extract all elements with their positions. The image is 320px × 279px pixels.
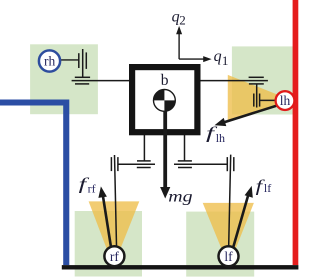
rh leg: vertical slider rod <box>82 49 84 77</box>
blue wall (left, L-shaped) <box>0 100 69 266</box>
axis q2 (vertical arrow) <box>176 26 182 59</box>
svg-text:1: 1 <box>222 53 229 68</box>
lh leg: piston plate right <box>259 94 261 107</box>
lh leg: sleeve top bar <box>249 76 264 78</box>
gravity arrow mg <box>160 100 170 199</box>
lh leg: stem to hip circle <box>260 99 276 101</box>
lf leg: vertical rod to foot <box>229 155 231 250</box>
lh leg: piston plate left <box>253 94 255 107</box>
lf leg: piston plate left <box>226 157 228 171</box>
rh leg: piston plate left <box>78 53 80 68</box>
body square b <box>132 67 197 132</box>
svg-text:q: q <box>214 48 222 65</box>
center of mass symbol <box>154 90 176 112</box>
hip circle rh <box>39 50 60 71</box>
force arrow f_lh <box>215 101 293 127</box>
region lf (green square) <box>186 212 254 277</box>
rf leg: vertical rod to foot <box>115 155 117 250</box>
friction cone rf <box>89 201 140 266</box>
svg-text:lh: lh <box>280 93 291 108</box>
region lh (green square) <box>232 46 294 114</box>
svg-text:mg: mg <box>168 188 192 205</box>
lf leg: horizontal rod <box>174 163 227 165</box>
rf leg: horizontal rod <box>118 163 155 165</box>
rh leg: stem from hip circle <box>59 59 79 61</box>
lf leg: sleeve top bar <box>178 160 192 162</box>
svg-text:lh: lh <box>216 131 225 145</box>
svg-text:rf: rf <box>88 182 96 196</box>
svg-text:lf: lf <box>264 181 271 195</box>
lh leg: vertical slider rod <box>256 84 258 108</box>
rh leg: sleeve bottom bar <box>75 83 89 85</box>
svg-text:lf: lf <box>224 249 233 264</box>
force arrow f_rf <box>98 186 113 263</box>
svg-text:2: 2 <box>179 13 186 28</box>
rh leg: horizontal rod to body <box>72 80 130 82</box>
rh leg: sleeve top bar <box>75 76 90 78</box>
svg-text:rh: rh <box>44 53 55 68</box>
lf leg: sleeve bottom bar <box>178 167 192 169</box>
force arrow f_lf <box>229 186 253 263</box>
foot circle rf <box>104 246 124 266</box>
foot circle lf <box>219 246 239 266</box>
svg-text:rf: rf <box>110 249 119 264</box>
rf leg: sleeve top bar <box>137 160 151 162</box>
rf leg: piston plate right <box>117 157 119 171</box>
svg-text:b: b <box>161 72 169 89</box>
rf leg: stem from body <box>143 134 145 161</box>
rf leg: sleeve bottom bar <box>137 167 151 169</box>
lf leg: stem from body <box>184 134 186 161</box>
red wall (right) <box>293 0 299 265</box>
region rf (green square) <box>75 211 142 277</box>
friction cone lf <box>203 203 254 266</box>
lf leg: piston plate right <box>233 157 235 171</box>
friction cone lh <box>228 75 293 121</box>
axis q1 (horizontal arrow) <box>179 56 212 62</box>
lh leg: sleeve bottom bar <box>249 83 264 85</box>
lh leg: horizontal rod from body <box>200 80 268 82</box>
hip circle lh <box>276 91 295 110</box>
ground line <box>62 265 299 269</box>
rf leg: piston plate left <box>110 157 112 171</box>
rh leg: piston plate right <box>85 52 87 69</box>
region rh (green square) <box>30 44 98 114</box>
